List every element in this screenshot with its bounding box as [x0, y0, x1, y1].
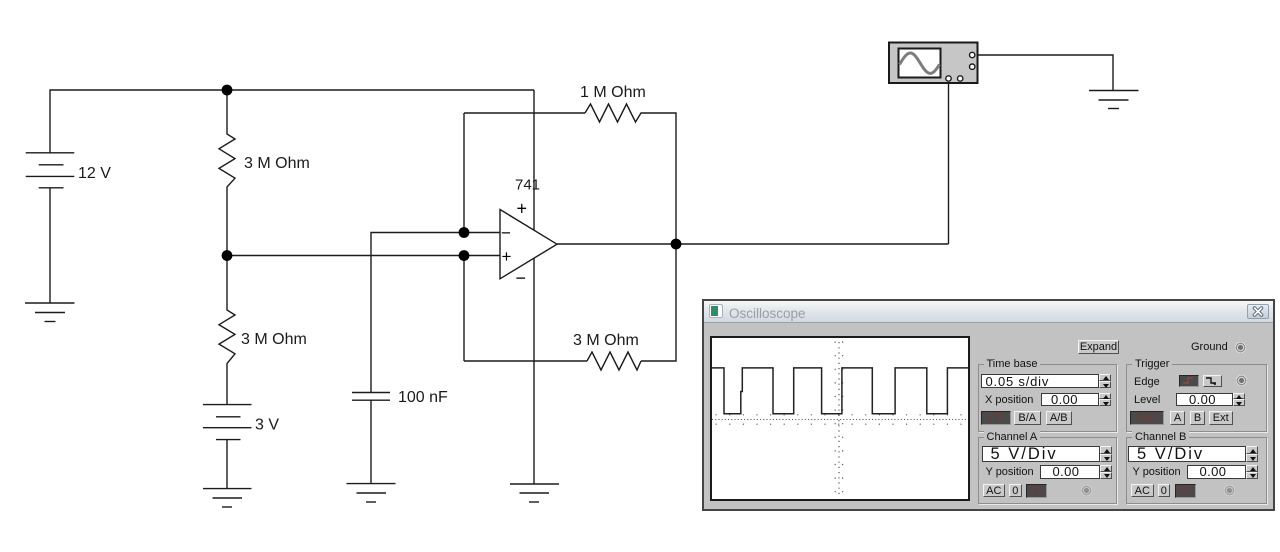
- wire scope right terminal to ground: [978, 55, 1114, 91]
- Y position label A: [986, 466, 1034, 478]
- wire 3M to output column: [641, 244, 676, 361]
- Ground label: [1191, 341, 1228, 353]
- time base spinner: [1099, 374, 1111, 389]
- 0 button A: [1009, 484, 1022, 498]
- Ground radio: [1235, 342, 1246, 353]
- channel B scale spinner: [1246, 446, 1258, 462]
- AC button B: [1131, 484, 1154, 498]
- svg-text:−: −: [516, 268, 527, 288]
- edge radio: [1236, 375, 1247, 386]
- channel A scale field: [982, 446, 1101, 462]
- ground below V1: [25, 303, 75, 322]
- ground below V2: [203, 489, 252, 507]
- X position label: [985, 394, 1033, 406]
- ground below supply drop: [510, 484, 559, 502]
- DC button A (pressed): [1026, 484, 1048, 498]
- svg-text:3 M Ohm: 3 M Ohm: [573, 332, 639, 349]
- Auto button (pressed): [1130, 411, 1164, 425]
- svg-text:12 V: 12 V: [78, 165, 111, 182]
- B button: [1190, 411, 1205, 425]
- svg-text:1 M Ohm: 1 M Ohm: [580, 84, 646, 101]
- square wave trace channel A: [712, 367, 968, 413]
- wire scope riser: [948, 83, 950, 244]
- svg-text:3 M Ohm: 3 M Ohm: [244, 155, 310, 172]
- wire bottom run to 3M: [464, 360, 587, 362]
- node inverting input junction: [459, 227, 470, 238]
- oscilloscope window: [702, 299, 1275, 511]
- X position field: [1041, 393, 1099, 407]
- svg-text:+: +: [517, 199, 528, 219]
- channel B radio (grayed): [1224, 485, 1235, 496]
- Time base group: [978, 364, 1117, 432]
- A button: [1170, 411, 1185, 425]
- close button: [1247, 304, 1269, 319]
- Ext button: [1209, 411, 1233, 425]
- wire node B to op-amp non-inverting input: [227, 255, 500, 257]
- battery V1 12V: [26, 153, 75, 188]
- DC button B (pressed): [1175, 484, 1197, 498]
- Expand button: [1078, 340, 1119, 354]
- capacitor C1 100 nF: [352, 393, 390, 401]
- channel B scale field: [1128, 446, 1246, 462]
- time base value field: [981, 374, 1099, 389]
- wire capacitor to ground: [370, 400, 372, 483]
- svg-text:3 M Ohm: 3 M Ohm: [241, 331, 307, 348]
- wire feedback riser from inverting node: [463, 113, 465, 233]
- ground below C1: [347, 484, 396, 502]
- oscilloscope icon XSC1: [889, 43, 978, 84]
- node output junction: [671, 239, 682, 250]
- Level label: [1134, 394, 1160, 406]
- svg-text:100 nF: 100 nF: [398, 389, 448, 406]
- svg-text:−: −: [501, 224, 511, 243]
- wire dropper from non-inverting node: [463, 256, 465, 362]
- Trigger group: [1126, 364, 1267, 432]
- wire supply drop through op-amp to ground: [533, 90, 535, 484]
- node non-inverting input junction: [459, 250, 470, 261]
- Y position field B: [1187, 465, 1247, 479]
- channel A scale spinner: [1100, 446, 1112, 462]
- title bar: [704, 301, 1273, 323]
- A/B button: [1046, 411, 1073, 425]
- Y position spinner A: [1100, 465, 1112, 479]
- Edge label: [1134, 376, 1160, 388]
- edge falling button: [1203, 375, 1222, 387]
- Y position field A: [1040, 465, 1101, 479]
- Level spinner: [1233, 393, 1245, 407]
- Y/T button (pressed): [981, 411, 1011, 425]
- battery V2 3V: [203, 405, 252, 440]
- horizontal axis tick dots: [716, 413, 968, 415]
- 0 button B: [1158, 484, 1171, 498]
- svg-text:3 V: 3 V: [255, 417, 279, 434]
- node B junction: [222, 250, 233, 261]
- ground top right: [1089, 91, 1139, 109]
- resistor R4 3 M Ohm: [587, 352, 641, 370]
- Level field: [1176, 393, 1233, 407]
- AC button A: [983, 484, 1006, 498]
- node A junction: [222, 85, 233, 96]
- svg-text:+: +: [502, 247, 512, 266]
- wire capacitor top to inverting node: [371, 233, 500, 393]
- resistor R2 3 M Ohm: [219, 255, 235, 405]
- wire battery V1 to ground: [49, 188, 51, 303]
- wire feedback top run: [464, 112, 585, 114]
- vertical center dotted axis: [838, 342, 840, 498]
- edge rising button (pressed): [1179, 375, 1200, 387]
- horizontal center dotted axis: [712, 418, 968, 420]
- B/A button: [1014, 411, 1041, 425]
- vertical axis tick dots: [834, 341, 836, 498]
- wire output to scope column: [557, 243, 949, 245]
- channel A radio (grayed): [1081, 485, 1092, 496]
- wire top rail from 12V battery to supply drop: [50, 90, 534, 153]
- X position spinner: [1099, 393, 1111, 407]
- op-amp U1 741: [500, 210, 557, 279]
- scope display screen: [710, 336, 970, 502]
- Y position label B: [1133, 466, 1181, 478]
- Y position spinner B: [1246, 465, 1258, 479]
- svg-text:741: 741: [515, 177, 540, 194]
- resistor R1 3 M Ohm: [219, 90, 235, 255]
- wire battery V2 to ground: [226, 440, 228, 489]
- wire 1M to output column: [646, 113, 676, 244]
- Channel B group: [1126, 437, 1267, 504]
- resistor R3 1 M Ohm: [585, 104, 646, 122]
- Channel A group: [978, 437, 1117, 504]
